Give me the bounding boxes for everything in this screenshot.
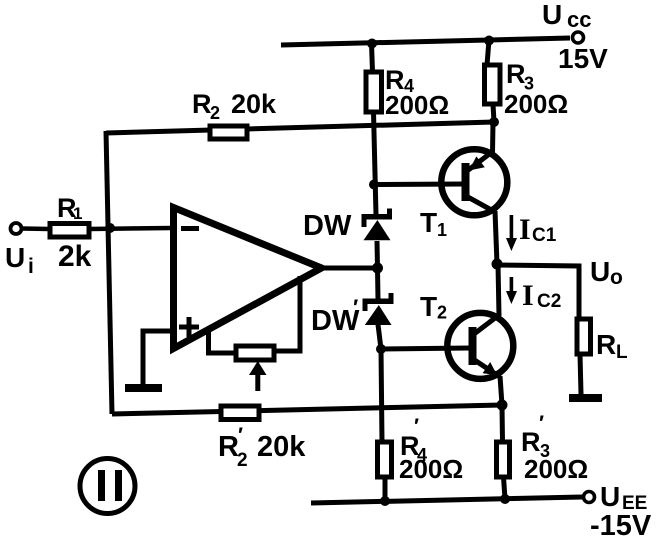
node opamp output zener mid	[372, 263, 383, 274]
resistor R4b	[378, 442, 392, 501]
op-amp U1	[174, 208, 322, 349]
node T2 base tap	[376, 344, 386, 354]
svg-text:R: R	[218, 431, 239, 463]
svg-text:I: I	[522, 279, 534, 312]
terminal UEE	[584, 492, 595, 503]
wire zener to R4b	[381, 349, 382, 442]
wire T2 emitter node to R3b	[500, 405, 506, 442]
svg-text:U: U	[600, 481, 620, 512]
svg-text:200Ω: 200Ω	[504, 89, 568, 119]
potentiometer wiper arrow	[249, 361, 267, 391]
resistor R2b	[221, 406, 259, 420]
wire T1 collector to output node	[495, 211, 497, 264]
label R2 20k	[192, 89, 277, 123]
svg-text:1: 1	[437, 220, 447, 240]
svg-text:U: U	[590, 256, 610, 287]
label Ui	[5, 242, 34, 278]
opamp minus sign	[181, 226, 199, 231]
svg-text:-15V: -15V	[590, 510, 652, 542]
label -15V	[590, 510, 652, 542]
svg-text:i: i	[28, 255, 34, 278]
current arrow IC1	[506, 215, 517, 251]
svg-text:2: 2	[237, 450, 248, 471]
svg-text:R: R	[506, 59, 526, 89]
wire feedback R2b bottom	[112, 405, 502, 414]
wire output to Uo	[497, 265, 579, 319]
label R3 value 200ohm	[504, 89, 568, 119]
svg-text:200Ω: 200Ω	[524, 454, 588, 484]
svg-text:′: ′	[539, 412, 544, 435]
wire R1 to opamp inverting input	[89, 228, 171, 229]
transistor T2	[447, 313, 513, 379]
opamp plus sign	[179, 317, 199, 337]
svg-text:200Ω: 200Ω	[385, 90, 449, 120]
zener diode DW2	[363, 268, 394, 349]
wire feedback left vertical	[106, 131, 112, 414]
label T1	[420, 207, 447, 240]
wire T2 emitter down	[500, 376, 502, 405]
svg-text:15V: 15V	[558, 43, 608, 74]
label 15V	[558, 43, 608, 74]
ground opamp input	[125, 384, 162, 392]
svg-text:2k: 2k	[58, 240, 92, 273]
label RL	[596, 329, 628, 363]
label IC1	[519, 213, 557, 246]
label R3b value 200ohm	[524, 454, 588, 484]
transistor T1	[441, 149, 507, 215]
svg-text:L: L	[616, 342, 628, 363]
svg-text:20k: 20k	[231, 89, 277, 119]
label R4	[385, 65, 414, 96]
wire top supply rail	[281, 38, 570, 45]
svg-text:R: R	[596, 329, 616, 360]
svg-text:200Ω: 200Ω	[399, 454, 463, 484]
label R4b value 200ohm	[399, 454, 463, 484]
wire input to R1	[21, 226, 50, 231]
svg-text:2: 2	[437, 303, 447, 323]
svg-text:U: U	[5, 242, 25, 273]
svg-text:′: ′	[414, 415, 419, 438]
node top rail R3	[484, 36, 494, 46]
wire T1 base	[374, 182, 463, 188]
node T1 base tap	[369, 180, 379, 190]
wire output node to T2 collector	[498, 264, 499, 316]
svg-text:20k: 20k	[257, 431, 306, 463]
current arrow IC2	[506, 277, 517, 304]
node R1 feedback junction	[105, 223, 115, 233]
wire opamp output	[320, 266, 377, 271]
wire bottom supply rail	[311, 497, 582, 503]
node bottom rail R3b	[500, 494, 510, 504]
resistor R4	[366, 43, 382, 215]
node bottom rail R4b	[380, 496, 390, 506]
label R1 value 2k	[58, 240, 92, 273]
resistor R3	[485, 40, 501, 122]
svg-text:I: I	[519, 213, 531, 246]
label R3	[506, 59, 534, 94]
svg-text:1: 1	[73, 204, 82, 223]
svg-text:R: R	[192, 89, 212, 119]
wire T2 base	[381, 348, 470, 349]
wire T1 emitter to R3 node	[490, 122, 496, 153]
svg-text:T: T	[420, 207, 437, 238]
svg-text:C2: C2	[537, 291, 561, 312]
svg-text:DW: DW	[303, 210, 352, 242]
svg-text:U: U	[542, 0, 562, 30]
label UEE	[600, 481, 647, 514]
label R2b 20k	[218, 424, 306, 471]
label Uo	[590, 256, 623, 289]
svg-text:′: ′	[238, 424, 243, 447]
svg-text:′: ′	[353, 295, 358, 320]
node R2 to T1 emitter	[489, 117, 499, 127]
label T2	[420, 291, 447, 323]
wire pot left branch	[209, 331, 237, 353]
wire noninverting input to ground	[143, 331, 172, 385]
svg-text:2: 2	[210, 103, 220, 123]
label Ucc	[542, 0, 591, 32]
label R4 value 200ohm	[385, 90, 449, 120]
label R4b	[400, 415, 427, 465]
resistor RL	[577, 319, 591, 394]
svg-text:C1: C1	[532, 225, 557, 246]
figure number 11	[80, 459, 135, 514]
label R3b	[521, 412, 550, 461]
svg-text:T: T	[420, 291, 437, 322]
svg-text:o: o	[610, 266, 623, 289]
node top rail R4	[367, 39, 377, 49]
terminal Ucc	[573, 32, 584, 43]
zener diode DW	[362, 209, 393, 269]
resistor R1	[50, 224, 89, 238]
node T2 emitter junction	[497, 400, 508, 411]
wire feedback R2 top	[106, 122, 494, 133]
ground RL	[569, 394, 602, 402]
resistor R3b	[497, 442, 510, 499]
svg-text:cc: cc	[567, 7, 591, 32]
svg-text:R: R	[521, 427, 541, 457]
label DW2	[311, 295, 360, 337]
potentiometer balance	[236, 346, 274, 360]
label R1	[57, 193, 82, 223]
node output	[492, 259, 503, 270]
label DW	[303, 210, 352, 242]
resistor R2	[210, 126, 247, 139]
label IC2	[522, 279, 561, 312]
terminal Ui input	[11, 223, 22, 234]
wire pot right branch	[274, 276, 300, 351]
